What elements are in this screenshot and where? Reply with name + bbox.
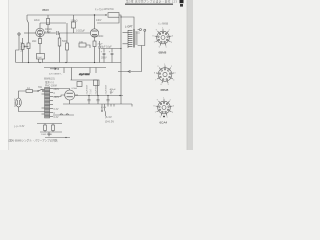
node PS dots [88,95,89,96]
B+ rail PS [75,95,123,97]
header tab glyph [180,0,184,3]
tube V2 6BM8 pentode [90,29,98,37]
box bias network 2 [94,80,100,86]
svg-text:9: 9 [157,100,158,102]
svg-text:470μF: 470μF [110,89,117,91]
svg-text:3: 3 [174,72,175,74]
svg-text:7: 7 [154,42,155,44]
svg-text:6CA4: 6CA4 [72,87,78,90]
svg-text:PMC-100M: PMC-100M [45,85,57,87]
volume pot VR1 [22,38,24,44]
wire plate drop V1 [39,23,41,28]
svg-text:100kΩ: 100kΩ [71,20,78,23]
tube V1 6BM8 triode [36,28,45,37]
right scan edge band [187,0,193,150]
svg-text:1: 1 [163,97,164,99]
NFB line lower [44,67,106,69]
svg-text:1: 1 [162,27,163,29]
heater terminal row [101,104,103,110]
svg-text:6.3V: 6.3V [54,108,59,111]
AC plug P1 [16,98,22,107]
transformer T2 taps [50,88,53,90]
wire OPT secondary bottom [138,31,145,45]
ground G1 [48,132,50,134]
wire heater run [53,114,74,116]
capacitor C2 cathode bypass [99,41,101,46]
right edge inner line [186,0,189,150]
svg-text:0.022μF: 0.022μF [76,30,85,33]
svg-text:}6.3V: }6.3V [105,115,112,119]
svg-text:第3章 真空管アンプの設計・製作 123: 第3章 真空管アンプの設計・製作 123 [126,0,177,4]
svg-text:2: 2 [169,30,170,32]
svg-text:1: 1 [164,64,165,66]
wire heater curve [105,110,106,116]
svg-text:350V: 350V [101,57,107,60]
wire screen rail right segment [97,17,119,23]
svg-text:6: 6 [161,84,162,86]
svg-text:4: 4 [172,112,173,114]
wire grid line V1 [24,32,36,34]
capacitor C7 filter [107,96,109,100]
input jack J1 [18,33,20,35]
wire B+ top rail [27,14,106,16]
svg-text:280V: 280V [54,88,60,91]
svg-text:3: 3 [173,106,174,108]
svg-text:6BM8(1/2): 6BM8(1/2) [44,78,55,80]
svg-text:6.3V: 6.3V [54,116,59,119]
resistor R6 cathode V2 [94,37,96,41]
svg-text:AC100V: AC100V [13,99,16,108]
svg-text:47μF 350V: 47μF 350V [79,74,90,76]
choke CH1 [108,13,119,18]
wire dropper [71,79,98,81]
svg-text:47μF350V: 47μF350V [86,84,88,94]
resistor R5 [72,22,76,28]
arrow to B [50,68,57,70]
resistor R3 plate load [47,15,49,19]
left page edge line [7,0,10,150]
node rail dots [28,62,29,63]
fuse F1 [26,90,33,93]
wire choke to OPT [119,15,134,29]
svg-text:140V: 140V [96,20,102,22]
resistor R4b [66,23,68,43]
svg-text:7: 7 [155,79,156,81]
wire jack down [16,35,19,62]
svg-text:9: 9 [158,66,159,68]
svg-text:100kΩ: 100kΩ [45,29,52,31]
svg-text:L-OPT: L-OPT [125,25,133,29]
svg-text:10Ω: 10Ω [79,41,83,43]
capacitor C5 filter [88,96,90,100]
svg-text:100Ω 100Ω: 100Ω 100Ω [41,134,53,136]
transformer T2 PT winding [45,88,50,119]
svg-text:47μF350V: 47μF350V [95,84,97,94]
svg-text:10μF: 10μF [37,57,42,59]
wire cap top link [101,48,121,50]
left page margin shading [0,0,8,150]
svg-text:}0-6.3V: }0-6.3V [105,120,114,124]
wire heater ext [45,137,70,139]
wire OPT primary entries [123,32,129,34]
svg-text:6: 6 [159,47,160,49]
socket S1 6BM8 [153,27,173,48]
resistor R7 hum [44,124,46,126]
wire B below rail [120,96,122,105]
switch SW1 [37,90,38,91]
svg-text:350V: 350V [42,8,49,12]
svg-text:3: 3 [172,36,173,38]
header rule [125,4,173,5]
terminal SP+ [139,29,141,31]
wire V2 screen [94,15,96,29]
svg-text:8Ω: 8Ω [137,32,140,35]
arrow SP [128,70,131,72]
wire HV to rectifier [53,89,70,91]
svg-text:6BM8: 6BM8 [161,88,169,92]
svg-text:4: 4 [173,79,174,81]
svg-text:47μF350V: 47μF350V [105,84,107,94]
resistor R8 hum [52,124,54,126]
resistor R1 grid [28,23,30,43]
transformer T1 secondary winding [135,32,137,44]
svg-text:2: 2 [171,66,172,68]
node choke junction [105,14,106,15]
page background [0,0,193,150]
ticks below rail [107,104,109,107]
resistor R4 grid2 [59,33,61,38]
terminal SP- [144,29,146,31]
svg-text:6CA4: 6CA4 [160,121,168,125]
socket S2 6BM8 [154,64,175,86]
svg-text:6BM8: 6BM8 [159,51,167,55]
svg-text:280V: 280V [54,96,60,99]
heater subcircuit top [37,123,62,125]
svg-text:4: 4 [171,42,172,44]
svg-text:0.5W: 0.5W [45,32,51,34]
wire AC bottom [19,107,45,112]
svg-text:22kΩ: 22kΩ [34,20,40,22]
svg-text:ﾁｮｰｸｺｲﾙ10H170Ω: ﾁｮｰｸｺｲﾙ10H170Ω [95,7,114,11]
ground rail PS [63,103,132,105]
resistor R4c horizontal [79,43,86,47]
ground rail upper [16,62,121,64]
svg-text:500k: 500k [62,40,68,43]
svg-text:8: 8 [153,36,154,38]
svg-text:6: 6 [160,117,161,119]
svg-text:ﾋｰﾀｰ 6.3V: ﾋｰﾀｰ 6.3V [14,124,25,128]
svg-text:8: 8 [154,72,155,74]
svg-text:2kΩ: 2kΩ [32,40,37,43]
transformer T2 primary stubs [42,89,45,91]
wire AC top [19,91,27,98]
heater subcircuit bottom [40,131,62,133]
svg-text:9: 9 [156,30,157,32]
svg-text:5: 5 [167,117,168,119]
box NFB network [37,54,45,60]
svg-text:500kΩ(A): 500kΩ(A) [20,42,23,52]
wire rail ticks [63,68,65,74]
wire B+ rail left drop [27,15,29,23]
capacitor C1 coupling [56,31,58,35]
tube V3 rectifier [65,90,75,100]
capacitor C4 filter 16uF [111,49,113,53]
socket S3 rectifier [154,97,174,118]
wire screen rail second line [40,22,66,24]
svg-text:820Ω: 820Ω [98,35,104,38]
resistor R2 cathode [39,37,41,39]
svg-text:0 V 0: 0 V 0 [101,107,107,109]
svg-text:16V: 16V [110,92,114,94]
svg-text:16μF 16μF: 16μF 16μF [100,46,112,49]
wire B feed vertical [120,17,122,96]
svg-text:7: 7 [155,112,156,114]
wire speaker return [118,46,142,72]
svg-text:2: 2 [170,100,171,102]
wire OPT secondary top [138,29,140,31]
capacitor C6 filter [97,96,99,100]
transformer T1 OPT primary winding [127,30,129,48]
wire plate to coupling [48,32,56,34]
transformer T1 core [132,29,134,48]
svg-text:5: 5 [166,47,167,49]
svg-text:5: 5 [168,84,169,86]
capacitor C3 filter 16uF [103,49,105,53]
box bias network [77,82,82,87]
wire rectifier out [69,100,71,104]
svg-text:8: 8 [154,106,155,108]
svg-text:1A: 1A [27,87,30,90]
svg-text:[図4] 6BM8シングル・パワーアンプの回路: [図4] 6BM8シングル・パワーアンプの回路 [9,139,58,143]
